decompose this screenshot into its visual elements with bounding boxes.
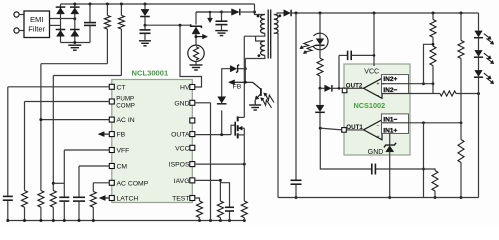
wire bridge left column <box>60 4 62 43</box>
LED D14 arrows <box>484 73 489 77</box>
node r21 rail <box>460 196 463 199</box>
wire IN2- to R18 <box>382 93 440 95</box>
resistor R13 <box>317 58 323 76</box>
AC input terminal J2 <box>14 28 19 33</box>
node out rail r2 <box>460 12 463 15</box>
resistor R5 <box>50 191 56 208</box>
pin OUT1 <box>342 128 347 133</box>
node clamp cap <box>220 11 223 14</box>
svg-text:CT: CT <box>117 84 126 91</box>
node diode tap <box>319 87 322 90</box>
resistor R4 <box>38 191 44 208</box>
diode output D7 <box>284 10 291 17</box>
node rail <box>198 219 201 222</box>
bridge diode D2 <box>71 8 79 14</box>
wire HV feed <box>180 25 202 87</box>
ground opto <box>249 104 261 106</box>
zener Z1 triangle <box>192 27 200 34</box>
svg-text:GND: GND <box>174 100 189 107</box>
pin HV <box>190 85 195 90</box>
transistor Q1 drain <box>238 116 245 118</box>
wire LED string bottom <box>478 78 480 198</box>
resistor R16 upper <box>432 13 434 20</box>
wire LED to resistor <box>319 45 321 58</box>
arrow FB out <box>229 80 235 85</box>
pin box IN2 pair <box>382 75 409 94</box>
wire EMI out upper to bridge <box>50 18 75 20</box>
resistor R8 <box>217 201 223 218</box>
node out rail a <box>295 12 298 15</box>
node AC IN <box>39 118 42 121</box>
node rail <box>23 219 26 222</box>
wire PUMP column <box>24 102 26 191</box>
opto LED arc <box>313 33 328 50</box>
wire clamp rail <box>196 11 210 13</box>
wire secondary top <box>274 13 284 15</box>
diode D10 to OUT2 <box>320 87 325 89</box>
wire VFF tap <box>53 182 64 184</box>
LED D13 <box>475 50 483 56</box>
node rail <box>228 219 231 222</box>
wire output column <box>295 13 297 180</box>
AC input terminal J1 <box>14 12 19 17</box>
wire primary bottom to drain <box>244 33 264 36</box>
wire gate clamp chain <box>221 110 223 134</box>
node in2 a <box>422 82 425 85</box>
svg-text:VFF: VFF <box>117 148 130 155</box>
optocoupler transistor Q2 <box>245 82 260 89</box>
ground bridge <box>68 44 81 46</box>
wire bridge bottom <box>61 42 91 44</box>
svg-text:TEST: TEST <box>172 196 189 203</box>
svg-text:−: − <box>377 123 380 129</box>
arrow LATCH wiper <box>99 196 105 201</box>
capacitor bulk C1 <box>89 4 91 22</box>
diode D5 down from rail <box>144 4 146 9</box>
wire rail down to primary <box>255 4 265 15</box>
capacitor C4 <box>3 195 13 197</box>
capacitor C9 <box>225 206 234 208</box>
opto LED light arrows <box>303 40 313 47</box>
node rail <box>78 219 81 222</box>
wire IN2 node <box>382 83 433 85</box>
wire TEST <box>195 198 200 201</box>
node rail <box>243 219 246 222</box>
diode D15 <box>218 97 226 103</box>
node aux zener <box>244 67 247 70</box>
node startup <box>195 35 198 38</box>
transistor Q1 gate <box>231 125 235 134</box>
ground C3 <box>215 30 228 32</box>
wire aux column <box>244 59 246 83</box>
node rail col2 <box>73 3 76 6</box>
resistor R7 <box>197 201 203 218</box>
pin TEST <box>190 196 195 201</box>
svg-text:NCS1002: NCS1002 <box>354 101 386 110</box>
capacitor output C7 <box>291 179 302 181</box>
svg-text:IN1+: IN1+ <box>383 127 397 134</box>
wire VFF <box>64 149 109 151</box>
svg-text:FB: FB <box>117 132 126 139</box>
svg-text:AC COMP: AC COMP <box>117 180 149 187</box>
node ISPOS source <box>243 163 246 166</box>
pin FB <box>109 132 114 137</box>
node rail R2 <box>120 3 123 6</box>
node rail <box>92 219 95 222</box>
wire terminal J2 to EMI <box>19 30 24 32</box>
node rail <box>39 219 42 222</box>
node rail <box>209 219 212 222</box>
svg-text:ISPOS: ISPOS <box>169 162 190 169</box>
wire AC IN sense <box>41 63 108 65</box>
wire IN1- node <box>382 122 461 124</box>
wire OUTA gate <box>195 134 231 136</box>
transistor Q1 source <box>238 134 245 136</box>
node rail cap <box>89 3 92 6</box>
transistor Q1 channel <box>237 116 239 121</box>
wire main DC rail <box>61 3 255 5</box>
node in1 a <box>422 121 425 124</box>
node OUT1 wire mid <box>319 127 322 130</box>
resistor R2 bleeder <box>120 4 122 15</box>
wire OUT1 to node <box>320 128 342 130</box>
wire GND column <box>210 103 212 221</box>
wire primary ground rail <box>8 220 245 222</box>
wire VCC feed <box>373 13 375 66</box>
ground C2 <box>139 40 151 42</box>
bridge diode D4 <box>71 30 79 36</box>
node bridge bottom <box>73 41 76 44</box>
arrow spark indicator <box>209 11 212 14</box>
wire R13 down <box>319 76 321 88</box>
zener Z2 gnd <box>389 133 391 145</box>
op-amp U2B <box>364 120 383 140</box>
svg-text:HV: HV <box>180 85 190 92</box>
startup current source U3 <box>188 45 204 61</box>
pin CT <box>109 84 114 89</box>
wire PUMP COMP <box>25 101 110 103</box>
opto LED D9 <box>316 39 324 45</box>
controller U1 NCL30001 box <box>112 80 193 203</box>
node in1 b <box>460 121 463 124</box>
wire R2 sense <box>53 75 121 77</box>
node gate clamp <box>220 133 223 136</box>
node out rail r1 <box>432 12 435 15</box>
wire CM <box>79 165 110 167</box>
node C7 rail <box>295 196 298 199</box>
wire R18 to LED string <box>456 93 479 95</box>
opto light arrows <box>263 100 272 108</box>
wire AC IN column <box>40 64 42 191</box>
wire comp column <box>423 123 425 198</box>
resistor R21 <box>460 123 462 140</box>
resistor R18 horizontal <box>440 91 456 96</box>
svg-text:IAVG: IAVG <box>174 178 190 185</box>
capacitor clamp C3 <box>221 12 223 21</box>
node rail R1 <box>106 3 109 6</box>
svg-text:COMP: COMP <box>116 103 135 110</box>
wire zener top <box>195 12 197 25</box>
transformer T1 aux winding <box>261 41 265 55</box>
arrow FB in <box>98 132 104 137</box>
node rail <box>6 219 9 222</box>
node rail clamp <box>144 3 147 6</box>
node D5 cap junction <box>144 24 147 27</box>
wire AC IN <box>41 119 110 121</box>
svg-text:GND: GND <box>368 149 384 156</box>
zener Z1 bar <box>191 24 202 28</box>
node rail <box>219 219 222 222</box>
pin CM <box>109 164 114 169</box>
capacitor clamp C2 <box>144 25 146 29</box>
zener Z3 <box>230 66 236 72</box>
resistor R19 <box>424 169 436 171</box>
wire AC COMP <box>93 182 109 184</box>
wire 320 to comp <box>320 128 371 169</box>
node comp cross <box>422 168 425 171</box>
wire HV tap <box>145 24 192 26</box>
node in2 b <box>432 82 435 85</box>
capacitor comp C8 <box>370 168 372 170</box>
node out rail vcc <box>373 12 376 15</box>
svg-text:+: + <box>377 134 380 140</box>
svg-text:VCC: VCC <box>175 145 189 152</box>
svg-text:+: + <box>377 82 380 88</box>
node AC upper on bridge <box>73 17 76 20</box>
ground startup <box>190 64 203 66</box>
pin GND <box>190 100 195 105</box>
resistor R3 <box>22 191 28 208</box>
wire aux bottom <box>245 55 264 58</box>
EMI filter block <box>24 11 50 38</box>
wire vcc cap branch <box>339 54 347 56</box>
diode clamp D6 <box>196 11 232 13</box>
wire IN2+ stub <box>382 83 385 85</box>
potentiometer R6 <box>90 192 96 208</box>
LED D14 <box>475 70 483 76</box>
pin PUMP COMP <box>109 99 114 104</box>
svg-text:IN2+: IN2+ <box>383 76 397 83</box>
node rail <box>52 219 55 222</box>
wire IAVG cap jog <box>220 183 229 207</box>
wire terminal J1 to EMI <box>19 14 24 16</box>
arrow startup right <box>203 34 208 39</box>
svg-text:NCL30001: NCL30001 <box>132 68 169 77</box>
wire LED12-13 <box>478 38 480 50</box>
node clamp rail right <box>253 11 256 14</box>
svg-text:PUMP: PUMP <box>116 96 134 103</box>
node HV tap <box>179 24 182 27</box>
wire primary-aux jog <box>256 36 265 41</box>
svg-text:Filter: Filter <box>28 24 45 33</box>
svg-text:EMI: EMI <box>30 15 44 24</box>
svg-text:LATCH: LATCH <box>117 196 139 203</box>
pin NC <box>190 118 195 123</box>
phase dot aux <box>258 54 261 57</box>
wire D15 up <box>222 69 231 97</box>
wire cap to OUT2 line <box>338 55 340 88</box>
wire GND pin <box>195 102 211 104</box>
wire CT column <box>7 87 9 196</box>
bridge diode D3 <box>57 30 65 36</box>
node FB tap <box>244 81 247 84</box>
wire zener to circle <box>195 34 197 45</box>
pin LATCH <box>109 196 114 201</box>
node IAVG <box>219 179 222 182</box>
wire bridge right column <box>74 4 76 43</box>
phase dot secondary <box>278 14 281 17</box>
pin AC COMP <box>109 180 114 185</box>
phase dot primary <box>257 15 260 18</box>
LED D12 arrows <box>484 34 489 38</box>
wire R2 column <box>52 76 54 191</box>
wire secondary ground rail <box>278 197 479 199</box>
node LED string tap <box>477 92 480 95</box>
node rail <box>63 219 66 222</box>
node r19 rail <box>434 196 437 199</box>
LED D12 <box>475 31 483 37</box>
wire secondary return <box>274 33 278 197</box>
svg-text:−: − <box>377 93 380 99</box>
svg-text:CM: CM <box>117 164 128 171</box>
pin ISPOS <box>190 162 195 167</box>
node VFF tap <box>52 182 55 185</box>
node vcc cap tee <box>373 54 376 57</box>
pin IAVG <box>190 178 195 183</box>
diode D11 <box>316 105 324 111</box>
resistor R20 <box>460 13 462 40</box>
svg-text:OUTA: OUTA <box>171 132 190 139</box>
wire VFF column <box>63 150 65 197</box>
transformer T1 secondary <box>274 15 278 34</box>
wire LED string top <box>478 13 480 31</box>
wire AC COMP column <box>92 183 94 192</box>
svg-text:FB: FB <box>233 84 242 91</box>
wire EMI out lower to bridge <box>50 24 61 26</box>
pin AC IN <box>109 117 114 122</box>
LED D13 arrows <box>484 53 489 57</box>
wire divider tap <box>424 44 434 83</box>
resistor R17 lower <box>430 46 436 66</box>
pin OUT2 <box>342 88 347 93</box>
pin OUTA <box>190 132 195 137</box>
transformer core <box>267 10 269 59</box>
wire LED13-14 <box>478 58 480 70</box>
pin VFF <box>109 148 114 153</box>
resistor R9 sense <box>241 201 247 218</box>
capacitor C6 <box>73 196 85 198</box>
wire D11 down <box>319 88 321 105</box>
wire CT <box>8 86 110 88</box>
svg-text:AC IN: AC IN <box>117 117 135 124</box>
pin VCC <box>190 145 195 150</box>
wire IAVG <box>195 179 221 181</box>
svg-text:VCC: VCC <box>364 69 379 76</box>
node bypass out2 <box>338 87 341 90</box>
node divider <box>432 43 435 46</box>
op-amp U2A <box>364 78 383 98</box>
pin box IN1 pair <box>382 114 409 133</box>
transformer T1 primary <box>260 15 264 34</box>
bridge diode D1 <box>57 8 65 14</box>
op-amp IC U2 NCS1002 box <box>344 64 410 155</box>
node out rail b <box>319 12 322 15</box>
wire ISPOS <box>195 163 245 165</box>
wire IAVG R <box>219 180 221 201</box>
resistor R1 bleeder <box>106 4 108 15</box>
node z2 rail <box>388 196 391 199</box>
capacitor C5 <box>59 196 69 198</box>
transistor Q1 body arrow <box>238 126 242 130</box>
wire LED chain top <box>319 13 321 39</box>
wire CM column <box>78 166 80 197</box>
wire circle to ground <box>195 62 197 65</box>
